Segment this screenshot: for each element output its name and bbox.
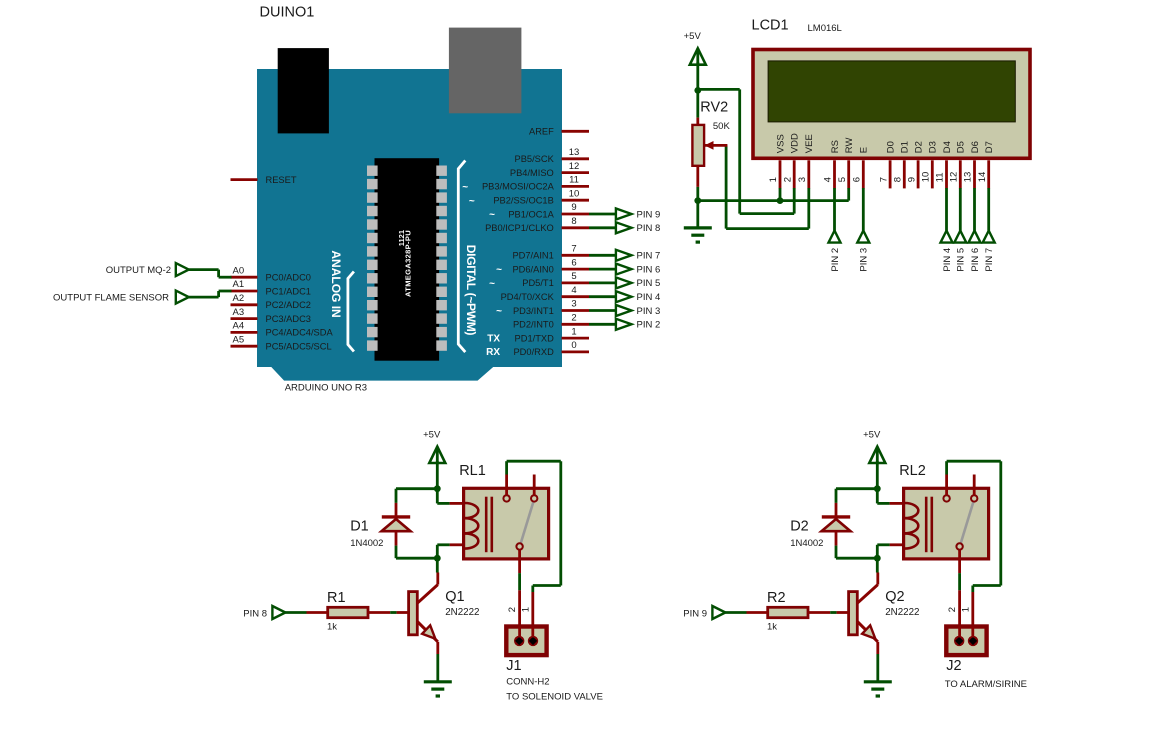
label Q2 [885,589,904,605]
wire relay common to J1 pin2 [518,550,521,642]
wire D / terminal PIN 4 [941,188,953,272]
wire / terminal PIN 5 [589,277,660,289]
svg-text:ATMEGA328P-PU: ATMEGA328P-PU [404,230,413,297]
svg-text:~: ~ [489,210,495,221]
svg-text:PIN 9: PIN 9 [637,209,661,220]
svg-text:2: 2 [947,607,958,612]
wire D / terminal PIN 6 [969,188,981,272]
LCD screen [768,61,1015,122]
transistor Q1 2N2222 [409,558,438,654]
svg-text:D0: D0 [886,141,897,153]
label J2 pin 1 [961,607,972,612]
svg-text:PD7/AIN1: PD7/AIN1 [512,251,553,261]
wire E / terminal PIN 3 [857,188,869,272]
pin PB5/SCK [515,147,589,164]
label TX [487,333,500,344]
svg-text:PIN 5: PIN 5 [956,248,967,272]
svg-text:J2: J2 [946,658,961,674]
value CONN-H2 [506,677,549,688]
value 1k (2) [767,622,777,633]
wire coil bottom 2 [877,545,903,558]
svg-text:RESET: RESET [266,175,297,185]
wire VSS to ground bus [779,188,782,201]
svg-text:TO SOLENOID VALVE: TO SOLENOID VALVE [506,692,603,703]
svg-text:6: 6 [571,257,576,268]
label J1 pin 1 [521,607,532,612]
wire / terminal PIN 9 [589,209,660,221]
svg-text:+5V: +5V [684,31,702,42]
svg-text:6: 6 [852,177,863,182]
svg-text:PB2/SS/OC1B: PB2/SS/OC1B [493,196,553,206]
svg-text:TO ALARM/SIRINE: TO ALARM/SIRINE [945,679,1027,690]
label RL2 [899,463,926,479]
LCD LCD1 body [753,50,1030,159]
wire relay common to J2 pin2 [958,550,961,642]
wire / terminal PIN 8 [589,222,660,234]
wire bus to ground [696,201,699,228]
svg-text:2N2222: 2N2222 [885,607,919,618]
svg-text:E: E [859,147,870,153]
svg-text:1: 1 [768,177,779,182]
terminal PIN 8 [243,606,306,619]
svg-text:PIN 7: PIN 7 [637,251,661,262]
transistor Q2 2N2222 [849,558,878,654]
wire coil top 1 [437,489,463,504]
svg-text:PC2/ADC2: PC2/ADC2 [266,300,311,310]
svg-text:~: ~ [496,306,502,317]
wire +5V down [436,461,439,489]
ground (Q2) [864,682,892,696]
svg-text:VDD: VDD [790,133,801,153]
terminal OUTPUT FLAME SENSOR [53,291,189,304]
LCD pin 7 D0 [878,141,896,188]
svg-text:RS: RS [830,140,841,153]
wire base 1 [390,611,408,614]
svg-text:R1: R1 [327,590,346,606]
svg-text:8: 8 [571,216,576,227]
svg-text:PB4/MISO: PB4/MISO [510,168,554,178]
LCD LCD1 label [752,17,789,33]
svg-text:PIN 3: PIN 3 [859,248,870,272]
wire diode bottom loop 1 [396,546,437,559]
value 50K [713,121,731,132]
svg-text:2: 2 [507,607,518,612]
pin PC0/ADC0 (A0) [231,265,311,282]
svg-text:1: 1 [521,607,532,612]
svg-text:D7: D7 [984,141,995,153]
wire emitter to ground 1 [436,654,439,682]
wire FLAME to A1 [189,291,232,297]
svg-text:3: 3 [571,299,576,310]
svg-text:OUTPUT FLAME SENSOR: OUTPUT FLAME SENSOR [53,292,169,303]
svg-text:AREF: AREF [529,127,554,137]
label R1 [327,590,346,606]
pin PC1/ADC1 (A1) [231,279,311,296]
pin PB3/MOSI/OC2A [462,175,589,193]
svg-text:PD6/AIN0: PD6/AIN0 [512,264,553,274]
svg-text:OUTPUT MQ-2: OUTPUT MQ-2 [106,265,171,276]
node junction +5V/coil/diode 1 [434,485,441,492]
svg-text:8: 8 [893,177,904,182]
value 2N2222 (1) [445,607,479,618]
svg-text:PD5/T1: PD5/T1 [522,278,554,288]
label DUINO1 [260,5,315,21]
LCD pin 10 D3 [921,141,939,188]
wire RS / terminal PIN 2 [829,188,841,272]
svg-text:50K: 50K [713,121,731,132]
connector J2 [946,627,986,656]
wire RV2 bottom to bus [696,187,699,201]
label RX [486,347,500,358]
svg-text:D1: D1 [900,141,911,153]
label RL1 [459,463,486,479]
svg-text:PC0/ADC0: PC0/ADC0 [266,273,311,283]
svg-text:PC5/ADC5/SCL: PC5/ADC5/SCL [266,342,332,352]
LCD pin 12 D5 [949,141,967,188]
power +5V (relay 2) [863,430,885,463]
wire coil bottom 1 [437,545,463,558]
pin relay NC contact 2 [973,475,976,496]
svg-text:CONN-H2: CONN-H2 [506,677,549,688]
svg-text:5: 5 [571,271,576,282]
label Q1 [445,589,464,605]
wire / terminal PIN 6 [589,264,660,276]
svg-text:PIN 2: PIN 2 [830,248,841,272]
terminal OUTPUT MQ-2 [106,263,189,276]
svg-text:PIN 3: PIN 3 [637,306,661,317]
svg-text:7: 7 [571,244,576,255]
LCD pin 13 D6 [963,141,981,188]
USB connector [278,48,329,133]
wire MQ-2 to A0 [189,270,232,278]
svg-text:PIN 4: PIN 4 [942,248,953,272]
wire ground bus [698,199,849,202]
value 2N2222 (2) [885,607,919,618]
label R2 [767,590,786,606]
label DIGITAL (~PWM) [464,245,478,336]
wire VDD to +5V [698,89,794,213]
svg-text:2: 2 [782,177,793,182]
pin PC3/ADC3 (A3) [231,307,311,324]
svg-text:12: 12 [569,161,580,172]
pin PC2/ADC2 (A2) [231,293,311,310]
pin PB1/OC1A [489,202,589,220]
value 1N4002 (1) [350,538,383,549]
wire diode top loop 2 [836,489,877,503]
svg-text:Q2: Q2 [885,589,904,605]
svg-text:13: 13 [569,147,580,158]
pin PD7/AIN1 [512,244,589,261]
svg-text:PB0/ICP1/CLKO: PB0/ICP1/CLKO [485,223,554,233]
svg-text:~: ~ [469,196,475,207]
svg-text:RX: RX [486,347,500,358]
svg-text:D5: D5 [956,141,967,153]
svg-text:PD2/INT0: PD2/INT0 [513,320,554,330]
svg-text:0: 0 [571,340,576,351]
label J1 pin 2 [507,607,518,612]
svg-text:+5V: +5V [863,430,881,441]
svg-text:2N2222: 2N2222 [445,607,479,618]
LCD pin 5 RW [837,138,855,189]
wire RW to bus [847,188,850,201]
label J2 [946,658,961,674]
label RV2 [700,100,728,116]
svg-text:1k: 1k [327,622,337,633]
pin PD1/TXD [515,326,589,343]
node junction +5V/VDD [694,87,701,94]
svg-text:RW: RW [844,138,855,154]
LCD pin 4 RS [823,140,841,188]
pin PD5/T1 [489,271,589,289]
arduino board DUINO1 body [257,69,562,381]
svg-text:D1: D1 [350,519,369,535]
label TO ALARM/SIRINE [945,679,1027,690]
svg-text:PB3/MOSI/OC2A: PB3/MOSI/OC2A [482,182,555,192]
svg-text:~: ~ [496,265,502,276]
svg-text:1: 1 [961,607,972,612]
svg-text:DIGITAL (~PWM): DIGITAL (~PWM) [464,245,478,336]
svg-text:2: 2 [571,313,576,324]
pin PD2/INT0 [513,313,589,330]
label ANALOG IN [329,250,343,317]
svg-text:A4: A4 [233,321,245,332]
svg-text:1N4002: 1N4002 [350,538,383,549]
svg-text:PC3/ADC3: PC3/ADC3 [266,314,311,324]
svg-text:RL1: RL1 [459,463,486,479]
ground (Q1) [424,682,452,696]
relay RL2 [904,488,989,559]
wire coil top 2 [877,489,903,504]
wire relay contact loop to J1 pin1 [507,461,561,641]
LCD value LM016L [808,23,842,34]
wire emitter to ground 2 [876,654,879,682]
svg-text:12: 12 [949,172,960,183]
svg-text:4: 4 [571,285,576,296]
relay RL1 [464,488,549,559]
svg-text:PIN 2: PIN 2 [637,320,661,331]
power +5V (relay 1) [423,430,445,463]
svg-text:~: ~ [462,182,468,193]
resistor R2 [747,607,831,617]
svg-text:VSS: VSS [775,134,786,153]
svg-text:PIN 6: PIN 6 [637,264,661,275]
svg-text:LCD1: LCD1 [752,17,789,33]
potentiometer RV2 [692,118,727,187]
svg-text:+5V: +5V [423,430,441,441]
svg-text:1k: 1k [767,622,777,633]
node junction coil/collector 2 [874,555,881,562]
svg-text:10: 10 [921,172,932,183]
wire +5V down [876,461,879,489]
terminal PIN 9 [683,606,746,619]
wire / terminal PIN 2 [589,319,660,331]
diode D1 [382,503,411,546]
pin AREF [529,127,589,137]
value 1N4002 (2) [790,538,823,549]
svg-text:VEE: VEE [804,134,815,153]
svg-text:11: 11 [569,175,579,186]
svg-text:PIN 7: PIN 7 [984,248,995,272]
svg-text:A0: A0 [233,265,245,276]
wire / terminal PIN 3 [589,305,660,317]
svg-text:14: 14 [977,172,988,183]
svg-text:PD1/TXD: PD1/TXD [515,333,555,343]
pin relay NO contact 2 [945,475,948,496]
label J2 pin 2 [947,607,958,612]
svg-text:Q1: Q1 [445,589,464,605]
wire / terminal PIN 4 [589,291,660,303]
svg-text:A1: A1 [233,279,245,290]
wire +5V rail [696,62,699,118]
svg-text:R2: R2 [767,590,786,606]
power connector [449,28,522,114]
svg-text:J1: J1 [506,658,521,674]
svg-text:PIN 9: PIN 9 [683,608,707,619]
wire VEE to RV2 wiper [726,145,809,228]
label D1 [350,519,369,535]
analog bracket [348,272,354,352]
LCD pin 8 D1 [893,141,911,188]
value 1k (1) [327,622,337,633]
svg-text:ANALOG IN: ANALOG IN [329,250,343,317]
wire diode bottom loop 2 [836,546,877,559]
pin PB4/MISO [510,161,589,178]
svg-text:D4: D4 [942,141,953,153]
ground (LCD) [684,228,712,242]
label D2 [790,519,809,535]
svg-text:PIN 6: PIN 6 [970,248,981,272]
svg-text:RV2: RV2 [700,100,728,116]
wire D / terminal PIN 7 [983,188,995,272]
wire / terminal PIN 7 [589,250,660,262]
IC U1 ATMEGA328P body [367,158,447,361]
IC U1 text 1121 ATMEGA328P-PU [397,230,413,297]
pin PB2/SS/OC1B [469,188,589,206]
digital bracket [458,161,465,353]
svg-text:PD4/T0/XCK: PD4/T0/XCK [501,292,555,302]
pin PD6/AIN0 [496,257,589,275]
pin PD0/RXD [513,340,589,357]
svg-text:1: 1 [571,326,576,337]
svg-text:A3: A3 [233,307,245,318]
svg-text:PB5/SCK: PB5/SCK [515,154,555,164]
label TO SOLENOID VALVE [506,692,603,703]
svg-text:3: 3 [797,177,808,182]
svg-text:D2: D2 [914,141,925,153]
node junction RV2/bus [694,197,701,204]
pin PD4/T0/XCK [501,285,589,302]
svg-text:D6: D6 [970,141,981,153]
LCD pin 3 VEE [797,134,815,188]
svg-text:TX: TX [487,333,500,344]
svg-text:PIN 8: PIN 8 [243,608,267,619]
svg-text:9: 9 [906,177,917,182]
diode D2 [822,503,851,546]
svg-text:4: 4 [823,177,834,182]
svg-text:PIN 4: PIN 4 [637,292,661,303]
svg-text:PB1/OC1A: PB1/OC1A [508,209,554,219]
wire relay contact loop to J2 pin1 [947,461,1001,641]
pin RESET [231,175,297,185]
svg-text:ARDUINO UNO R3: ARDUINO UNO R3 [285,383,367,394]
svg-text:10: 10 [569,188,580,199]
wire diode top loop 1 [396,489,437,503]
svg-text:PD3/INT1: PD3/INT1 [513,306,554,316]
label ARDUINO UNO R3 [285,383,367,394]
svg-text:PD0/RXD: PD0/RXD [513,347,554,357]
svg-text:PC1/ADC1: PC1/ADC1 [266,286,311,296]
LCD pin 11 D4 [935,141,953,188]
svg-text:A2: A2 [233,293,245,304]
LCD pin 2 VDD [782,133,800,188]
LCD pin 6 E [852,147,870,189]
svg-text:PIN 8: PIN 8 [637,223,661,234]
LCD pin 9 D2 [906,141,924,188]
pin PC5/ADC5/SCL (A5) [231,334,332,351]
node junction VSS/bus [777,197,784,204]
svg-text:PIN 5: PIN 5 [637,278,661,289]
pin relay NO contact 1 [505,475,508,496]
wire D / terminal PIN 5 [954,188,966,272]
svg-text:9: 9 [571,202,576,213]
svg-text:7: 7 [878,177,889,182]
node junction +5V/coil/diode 2 [874,485,881,492]
svg-text:D2: D2 [790,519,809,535]
svg-text:RL2: RL2 [899,463,926,479]
pin relay NC contact 1 [533,475,536,496]
svg-text:5: 5 [837,177,848,182]
LCD pin 14 D7 [977,141,995,188]
svg-text:~: ~ [489,279,495,290]
wire base 2 [830,611,848,614]
svg-text:11: 11 [935,172,946,182]
svg-text:PC4/ADC4/SDA: PC4/ADC4/SDA [266,328,334,338]
pin PC4/ADC4/SDA (A4) [231,321,334,338]
connector J1 [506,627,546,656]
power +5V (LCD) [684,31,706,65]
svg-text:13: 13 [963,172,974,183]
pin PB0/ICP1/CLKO [485,216,589,233]
node junction coil/collector 1 [434,555,441,562]
svg-text:A5: A5 [233,334,245,345]
resistor R1 [307,607,391,617]
svg-text:D3: D3 [928,141,939,153]
svg-text:LM016L: LM016L [808,23,842,34]
LCD pin 1 VSS [768,134,786,188]
svg-text:1N4002: 1N4002 [790,538,823,549]
pin PD3/INT1 [496,299,589,317]
label J1 [506,658,521,674]
svg-text:DUINO1: DUINO1 [260,5,315,21]
